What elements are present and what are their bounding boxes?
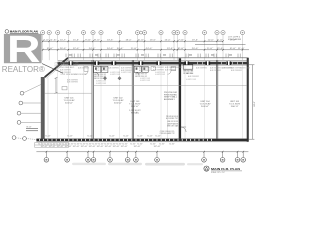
- svg-text:12'-0": 12'-0": [57, 146, 64, 148]
- lot note top right: [228, 36, 242, 41]
- svg-text:8'-0": 8'-0": [27, 127, 32, 129]
- unit label 1: [64, 98, 76, 105]
- svg-text:9'-0": 9'-0": [207, 48, 214, 50]
- interior light grid verticals: [58, 65, 243, 138]
- top dimension line A: [42, 40, 223, 42]
- svg-text:14'-0": 14'-0": [107, 48, 114, 50]
- washroom cluster unit3: [134, 66, 148, 75]
- svg-text:GL. ENTR. DOOR: GL. ENTR. DOOR: [140, 80, 150, 82]
- extra faint note rows: [96, 68, 250, 85]
- bottom dimension line: [36, 151, 248, 153]
- svg-text:RETAIL: RETAIL: [131, 112, 140, 115]
- firewall leader diagonal: [42, 64, 63, 74]
- svg-text:5'-6": 5'-6": [169, 143, 175, 145]
- dimension ticks on line A: [42, 40, 224, 42]
- svg-text:GL. ENTR. DOOR: GL. ENTR. DOOR: [110, 74, 120, 76]
- svg-text:ALUM. STOREFRONT: ALUM. STOREFRONT: [188, 75, 200, 78]
- area note unit3: [129, 110, 141, 114]
- storefront mullion slits right section: [197, 62, 243, 64]
- front (top) wall band with storefront openings: [58, 62, 249, 65]
- svg-text:5'-6": 5'-6": [80, 143, 86, 145]
- svg-text:20'-0": 20'-0": [192, 48, 199, 50]
- svg-text:12'-0": 12'-0": [73, 146, 80, 148]
- svg-text:4'-0": 4'-0": [43, 39, 49, 41]
- svg-text:5'-6": 5'-6": [92, 143, 98, 145]
- firewall vertical dim: [55, 77, 58, 93]
- corner grid bubble: [23, 137, 27, 141]
- svg-text:5'-0": 5'-0": [137, 136, 143, 138]
- svg-text:ALUM. STOREFRONT: ALUM. STOREFRONT: [210, 69, 222, 72]
- svg-text:5'-6": 5'-6": [130, 143, 136, 145]
- svg-text:12'-0": 12'-0": [113, 146, 120, 148]
- svg-text:12'-0": 12'-0": [97, 146, 104, 148]
- chamfer inner face line: [46, 59, 69, 78]
- unit label 2: [113, 98, 125, 105]
- interior sill dim texts: [45, 136, 161, 138]
- title logo circle: [204, 166, 209, 171]
- misc fixture marks unit1: [62, 67, 88, 90]
- svg-text:7'-6": 7'-6": [178, 39, 184, 41]
- interior line right units: [93, 85, 247, 87]
- svg-text:5'-6": 5'-6": [104, 143, 110, 145]
- front wall interior face line: [58, 64, 249, 66]
- svg-text:12'-0": 12'-0": [134, 146, 141, 148]
- REALTOR watermark block: [4, 28, 42, 70]
- svg-text:24'-0": 24'-0": [89, 48, 96, 50]
- svg-text:5'-0": 5'-0": [87, 136, 93, 138]
- door arc at firewall: [181, 127, 186, 132]
- door jamb blobs on front wall: [68, 61, 231, 65]
- svg-text:ALUM. STOREFRONT: ALUM. STOREFRONT: [96, 69, 108, 72]
- firewall note: [55, 62, 80, 69]
- storefront labels: [60, 66, 243, 83]
- top grid bubbles: [41, 30, 245, 34]
- svg-text:5'-6": 5'-6": [62, 143, 68, 145]
- firewall (thick): [179, 58, 181, 138]
- svg-text:ALUM. STOREFRONT: ALUM. STOREFRONT: [121, 69, 133, 72]
- svg-text:13'-0": 13'-0": [165, 39, 171, 41]
- entry stoop outline: [35, 142, 69, 148]
- svg-text:5'-6": 5'-6": [50, 143, 56, 145]
- svg-text:12'-0": 12'-0": [73, 48, 80, 50]
- svg-text:10'-7": 10'-7": [60, 39, 66, 41]
- svg-text:GL. ENTR. DOOR: GL. ENTR. DOOR: [121, 72, 131, 74]
- svg-text:5'-0": 5'-0": [109, 136, 115, 138]
- interior line left unit: [44, 92, 92, 94]
- svg-text:100'-0": 100'-0": [201, 106, 209, 108]
- top dimension line B: [42, 49, 249, 51]
- svg-text:100'-0": 100'-0": [65, 102, 73, 104]
- svg-text:12'-6": 12'-6": [208, 39, 214, 41]
- svg-text:18'-0": 18'-0": [126, 39, 132, 41]
- svg-text:REALTOR®: REALTOR®: [2, 64, 46, 74]
- svg-text:ALUM. STOREFRONT: ALUM. STOREFRONT: [60, 71, 72, 74]
- svg-text:12'-0": 12'-0": [65, 146, 72, 148]
- svg-text:15'-6": 15'-6": [73, 39, 79, 41]
- diamond grid marker: [139, 31, 143, 35]
- note cluster stack 3: [160, 131, 175, 135]
- svg-text:ALUM. STOREFRONT: ALUM. STOREFRONT: [67, 81, 79, 84]
- note block beside firewall: [164, 92, 178, 101]
- window dim tick pairs above front wall: [66, 54, 240, 58]
- bottom wall band (storefront): [36, 139, 248, 142]
- svg-text:SITE PLAN REF: SITE PLAN REF: [228, 38, 242, 41]
- sheet title bubble: [5, 30, 9, 34]
- svg-text:5'-6": 5'-6": [116, 143, 122, 145]
- svg-text:ALUM. STOREFRONT: ALUM. STOREFRONT: [153, 68, 165, 71]
- demising wall 3: [217, 60, 218, 138]
- svg-text:5'-0": 5'-0": [67, 136, 73, 138]
- washroom cluster unit4: [183, 65, 194, 75]
- svg-text:6'-0": 6'-0": [217, 39, 223, 41]
- svg-text:16'-6": 16'-6": [150, 39, 156, 41]
- svg-text:5'-0": 5'-0": [45, 136, 51, 138]
- left bubble leaders: [16, 85, 41, 140]
- svg-text:5'-0": 5'-0": [155, 136, 161, 138]
- washroom cluster unit2: [94, 66, 108, 75]
- grid line at stair bay: [166, 65, 168, 138]
- dimension text row B: [47, 48, 245, 50]
- svg-text:12'-0": 12'-0": [105, 146, 112, 148]
- dimension ticks on line B: [42, 49, 243, 51]
- left grid bubbles: [12, 91, 24, 139]
- svg-text:5'-6": 5'-6": [98, 143, 104, 145]
- svg-text:100'-0": 100'-0": [231, 106, 239, 108]
- svg-text:26'-0": 26'-0": [60, 48, 67, 50]
- svg-text:ALUM. STOREFRONT: ALUM. STOREFRONT: [108, 67, 120, 70]
- left wall inner face: [47, 78, 49, 140]
- svg-text:5'-0": 5'-0": [123, 136, 129, 138]
- svg-text:13'-6": 13'-6": [167, 48, 174, 50]
- left small dimension marks: [26, 128, 38, 130]
- svg-text:9'-0": 9'-0": [131, 48, 138, 50]
- svg-text:24'-0": 24'-0": [146, 48, 153, 50]
- svg-text:5'-6": 5'-6": [150, 143, 156, 145]
- right wall: [247, 58, 249, 142]
- top-left chamfer wall: [45, 58, 68, 77]
- note cluster stack 2: [167, 121, 179, 127]
- bottom dim ticks: [46, 151, 244, 153]
- svg-text:BLOCKING TYP.: BLOCKING TYP.: [166, 118, 178, 120]
- svg-text:8'-0": 8'-0": [94, 39, 100, 41]
- svg-text:MAIN FLOOR PLAN: MAIN FLOOR PLAN: [10, 30, 38, 34]
- svg-text:5'-6": 5'-6": [122, 143, 128, 145]
- svg-text:5'-0": 5'-0": [147, 136, 153, 138]
- sheet title text: [10, 30, 39, 34]
- svg-text:12'-0": 12'-0": [89, 146, 96, 148]
- unit label 5: [229, 101, 241, 108]
- svg-text:100'-0": 100'-0": [114, 102, 122, 104]
- washroom text rows: [94, 73, 147, 81]
- svg-text:5'-6": 5'-6": [159, 143, 165, 145]
- svg-text:ALUM. STOREFRONT: ALUM. STOREFRONT: [139, 69, 151, 72]
- svg-text:SEE DET. 5/A8: SEE DET. 5/A8: [167, 125, 178, 128]
- svg-text:TYP. UNO SEE A5.1: TYP. UNO SEE A5.1: [55, 66, 75, 69]
- svg-text:30'-6": 30'-6": [117, 48, 124, 50]
- svg-text:GL. ENTR. DOOR: GL. ENTR. DOOR: [155, 74, 165, 76]
- left wall: [41, 77, 44, 140]
- svg-text:12'-0": 12'-0": [41, 146, 48, 148]
- svg-text:100'-0": 100'-0": [131, 106, 139, 108]
- top grid line set (light verticals): [43, 35, 243, 60]
- svg-text:25'-6": 25'-6": [217, 48, 224, 50]
- svg-text:8'-0": 8'-0": [47, 48, 54, 50]
- svg-text:5'-6": 5'-6": [86, 143, 92, 145]
- svg-text:GL. ENTR. DOOR: GL. ENTR. DOOR: [96, 83, 106, 85]
- svg-text:2PC BARR FREE: 2PC BARR FREE: [183, 72, 193, 75]
- top dimension line A2 (right): [195, 43, 246, 45]
- unit label 3: [129, 101, 141, 108]
- right vertical dimension line: [249, 65, 255, 139]
- svg-text:18'-6": 18'-6": [107, 39, 113, 41]
- svg-text:11'-0": 11'-0": [238, 48, 245, 50]
- svg-text:24'-0": 24'-0": [254, 101, 256, 107]
- svg-text:5'-6": 5'-6": [44, 143, 50, 145]
- faint watermark smudge: [145, 163, 185, 166]
- svg-text:5'-6": 5'-6": [110, 143, 116, 145]
- demising wall 1: [92, 60, 93, 138]
- svg-text:ASSEMBLY: ASSEMBLY: [164, 98, 176, 101]
- unit label 4: [200, 101, 212, 108]
- svg-text:5'-6": 5'-6": [74, 143, 80, 145]
- svg-text:8'-0": 8'-0": [178, 48, 185, 50]
- svg-text:5'-6": 5'-6": [56, 143, 62, 145]
- svg-text:MAIN FLR. PLAN: MAIN FLR. PLAN: [211, 167, 240, 171]
- demising wall 2: [132, 60, 133, 138]
- canopy/roof line: [68, 57, 249, 59]
- svg-text:12'-0": 12'-0": [121, 146, 128, 148]
- column symbols: [103, 76, 121, 80]
- svg-text:GL. ENTR. DOOR: GL. ENTR. DOOR: [186, 79, 196, 81]
- title text: [211, 167, 242, 174]
- note cluster stack 1: [166, 116, 179, 120]
- front (top) wall thin face: [58, 59, 249, 61]
- bottom grid bubbles: [44, 158, 245, 163]
- svg-text:5'-6": 5'-6": [38, 143, 44, 145]
- misc fixture marks unit3: [151, 67, 176, 75]
- svg-text:6'-0": 6'-0": [138, 39, 144, 41]
- svg-text:6'-6": 6'-6": [51, 39, 57, 41]
- svg-text:12'-0": 12'-0": [49, 146, 56, 148]
- svg-text:8'-6": 8'-6": [230, 48, 237, 50]
- svg-text:5'-6": 5'-6": [137, 143, 143, 145]
- svg-text:5'-6": 5'-6": [68, 143, 74, 145]
- bottom bubble stems: [46, 152, 243, 158]
- svg-text:ALUM. STOREFRONT: ALUM. STOREFRONT: [196, 67, 208, 70]
- svg-text:PIPE BOLLARD TYP.: PIPE BOLLARD TYP.: [160, 132, 175, 135]
- dimension text row A: [43, 39, 236, 41]
- svg-text:19'-6": 19'-6": [192, 39, 198, 41]
- svg-text:9'-6": 9'-6": [85, 39, 91, 41]
- svg-text:12'-0": 12'-0": [154, 146, 161, 148]
- svg-text:12'-0": 12'-0": [81, 146, 88, 148]
- bottom dim text rows: [38, 143, 175, 148]
- svg-text:ALUM. STOREFRONT: ALUM. STOREFRONT: [222, 67, 234, 70]
